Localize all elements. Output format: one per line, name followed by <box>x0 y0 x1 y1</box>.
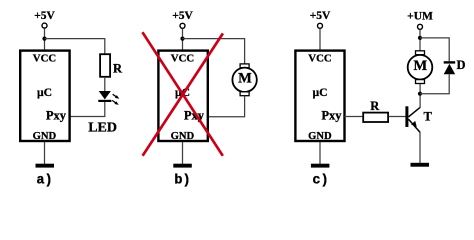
svg-text:VCC: VCC <box>171 53 194 65</box>
wire resistor to base (c) <box>389 116 406 118</box>
svg-text:D: D <box>457 58 466 72</box>
red cross stroke 1 (b) <box>142 32 222 156</box>
diode D cathode bar <box>444 61 456 63</box>
svg-text:GND: GND <box>171 131 195 142</box>
svg-text:LED: LED <box>88 121 117 136</box>
svg-text:µC: µC <box>312 86 327 99</box>
motor M (c) top brush <box>416 51 425 55</box>
wire terminal to VCC pin (b) <box>182 29 184 51</box>
LED D1 triangle <box>99 91 111 99</box>
wire Pxy pin to resistor (c) <box>344 116 362 118</box>
svg-text:VCC: VCC <box>33 53 56 65</box>
wire junction to resistor (a) <box>45 39 105 54</box>
motor M (b) body <box>232 68 256 92</box>
svg-text:Pxy: Pxy <box>46 109 67 123</box>
transistor T base bar <box>405 106 408 127</box>
terminal +5V (c) <box>318 23 323 28</box>
svg-text:+UM: +UM <box>407 11 433 23</box>
wire terminal to VCC pin (c) <box>319 29 321 51</box>
terminal +5V (a) <box>42 23 47 28</box>
wire diode branch bottom <box>420 74 449 93</box>
svg-text:T: T <box>424 110 433 124</box>
LED cathode bar <box>98 100 111 102</box>
junction dot collector (c) <box>418 92 422 96</box>
transistor T collector stroke <box>408 107 420 117</box>
svg-text:VCC: VCC <box>308 53 331 65</box>
transistor T emitter arrow <box>411 121 417 127</box>
junction dot +UM <box>418 36 422 40</box>
LED light arrow 1 <box>113 94 120 99</box>
LED light arrow 2 <box>112 100 119 105</box>
wire GND pin to ground (b) <box>182 142 184 164</box>
motor M (b) top brush <box>240 64 249 68</box>
wire resistor to LED (a) <box>104 77 106 91</box>
wire GND pin to ground (a) <box>44 142 46 164</box>
motor M (b) bottom brush <box>240 92 249 96</box>
svg-text:M: M <box>414 58 428 74</box>
terminal +5V (b) <box>180 23 185 28</box>
svg-text:+5V: +5V <box>310 10 331 22</box>
microcontroller U3 (c) <box>295 51 344 141</box>
ground symbol (b) <box>173 164 192 168</box>
svg-text:+5V: +5V <box>34 10 55 22</box>
svg-text:R: R <box>113 62 123 76</box>
red cross stroke 2 (b) <box>143 33 223 155</box>
svg-text:GND: GND <box>308 131 332 142</box>
wire LED to Pxy pin (a) <box>69 102 105 117</box>
junction dot (a) <box>42 37 46 41</box>
svg-text:c): c) <box>312 173 328 188</box>
svg-text:GND: GND <box>33 131 57 142</box>
wire collector to junction (c) <box>419 84 421 108</box>
svg-text:b): b) <box>174 173 190 188</box>
svg-text:R: R <box>370 99 380 113</box>
ground symbol (c) <box>311 164 330 168</box>
microcontroller U2 (b) <box>158 51 207 141</box>
svg-text:µC: µC <box>37 86 52 99</box>
wire emitter to ground (c) <box>419 132 421 163</box>
motor M (c) bottom brush <box>416 80 425 84</box>
svg-text:a): a) <box>36 173 52 188</box>
ground symbol (c transistor) <box>411 163 430 167</box>
wire terminal to motor (c) <box>419 30 421 51</box>
wire terminal to VCC pin (a) <box>44 28 46 50</box>
svg-text:M: M <box>238 70 252 86</box>
terminal +UM <box>418 24 423 29</box>
resistor R (a) <box>100 54 110 77</box>
diode D triangle <box>444 64 456 75</box>
resistor R (c) <box>363 113 388 122</box>
svg-text:Pxy: Pxy <box>321 109 342 123</box>
wire motor to Pxy pin (b) <box>208 96 245 117</box>
wire junction to motor (b) <box>183 39 245 64</box>
wire GND pin to ground (c) <box>319 142 321 164</box>
wire diode branch top <box>420 38 449 61</box>
ground symbol (a) <box>36 164 55 168</box>
svg-text:+5V: +5V <box>172 10 193 22</box>
microcontroller U1 (a) <box>20 51 69 141</box>
junction dot (b) <box>180 37 184 41</box>
motor M (c) body <box>408 55 433 80</box>
transistor T emitter stroke <box>408 119 420 132</box>
